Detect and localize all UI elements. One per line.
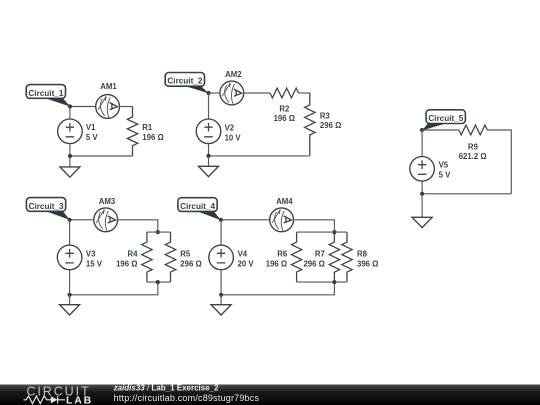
label V5 5 V	[439, 161, 452, 180]
voltage source V3	[57, 220, 82, 295]
svg-text:R9: R9	[468, 142, 479, 151]
svg-text:R7: R7	[315, 250, 325, 259]
junction circuit 2 top	[206, 91, 210, 95]
junction circuit 4 top	[219, 218, 223, 222]
voltage source V4	[209, 220, 234, 295]
resistor R3	[305, 93, 315, 156]
resistor R7	[329, 232, 339, 282]
wire node to R9	[422, 129, 459, 131]
label R5 296 Ω	[180, 250, 201, 269]
svg-text:15 V: 15 V	[86, 259, 103, 268]
svg-text:R3: R3	[320, 112, 331, 121]
svg-text:R8: R8	[357, 250, 368, 259]
svg-text:AM1: AM1	[100, 82, 117, 91]
resistor R5	[165, 232, 175, 282]
svg-text:196 Ω: 196 Ω	[274, 114, 295, 123]
wire bottom rail circuit 4	[297, 281, 347, 283]
svg-text:V2: V2	[225, 123, 235, 132]
logo resistor zigzag	[24, 396, 52, 404]
label R1 196 Ω	[142, 123, 163, 142]
svg-text:AM4: AM4	[276, 197, 293, 206]
svg-text:Circuit_1: Circuit_1	[28, 89, 63, 98]
svg-text:5 V: 5 V	[439, 171, 452, 180]
svg-text:zaidis33 / Lab_1 Exercise_2: zaidis33 / Lab_1 Exercise_2	[113, 384, 220, 393]
svg-text:20 V: 20 V	[238, 259, 255, 268]
resistor R2	[270, 88, 299, 98]
junction circuit 3 parallel bottom	[156, 280, 160, 284]
resistor R6	[291, 232, 301, 282]
junction circuit 4 bottom	[219, 293, 223, 297]
label R4 196 Ω	[116, 250, 138, 269]
svg-text:Circuit_2: Circuit_2	[167, 77, 202, 86]
node label Circuit_2	[165, 73, 208, 94]
wire bottom circuit 5	[422, 193, 511, 195]
wire parallel bottom to ground rail	[70, 282, 158, 295]
wire ammeter to R1	[120, 106, 133, 108]
junction circuit 4 parallel top	[332, 230, 336, 234]
ground circuit 3	[60, 295, 80, 315]
svg-text:AM3: AM3	[99, 197, 116, 206]
ammeter AM4	[270, 208, 294, 232]
ground circuit 4	[211, 295, 231, 315]
label R2 196 Ω	[274, 105, 295, 124]
svg-text:R6: R6	[277, 250, 288, 259]
svg-text:296 Ω: 296 Ω	[320, 121, 341, 130]
junction circuit 1 bottom	[68, 154, 72, 158]
svg-text:V4: V4	[238, 249, 248, 258]
junction circuit 2 bottom	[206, 154, 210, 158]
junction circuit 3 bottom	[68, 293, 72, 297]
wire top rail circuit 4	[297, 231, 347, 233]
svg-text:http://circuitlab.com/c89stugr: http://circuitlab.com/c89stugr79bcs	[114, 393, 260, 403]
svg-text:196 Ω: 196 Ω	[142, 133, 163, 142]
resistor R4	[142, 232, 152, 282]
wire bottom circuit 2	[209, 155, 310, 157]
svg-text:LAB: LAB	[66, 394, 93, 405]
resistor R9	[459, 125, 488, 135]
svg-text:Circuit_5: Circuit_5	[428, 114, 463, 123]
voltage source V1	[58, 107, 83, 157]
label R3 296 Ω	[320, 112, 341, 131]
voltage source V5	[410, 130, 435, 194]
label R6 196 Ω	[266, 250, 288, 269]
wire parallel bottom to ground rail circuit 4	[221, 282, 334, 295]
resistor R1	[127, 107, 137, 157]
junction circuit 3 top	[68, 218, 72, 222]
voltage source V2	[196, 93, 221, 156]
wire AM4 to parallel feed	[294, 220, 335, 232]
wire node to AM3	[70, 219, 94, 221]
wire R2 to corner	[299, 92, 310, 94]
label V4 20 V	[238, 249, 255, 268]
svg-text:R5: R5	[180, 250, 191, 259]
junction circuit 4 parallel bottom	[332, 280, 336, 284]
junction circuit 5 bottom	[420, 192, 424, 196]
node label Circuit_5	[422, 110, 465, 131]
resistor R8	[342, 232, 352, 282]
svg-text:196 Ω: 196 Ω	[116, 259, 137, 268]
svg-text:10 V: 10 V	[225, 133, 242, 142]
wire bottom circuit 1	[70, 155, 133, 157]
svg-text:AM2: AM2	[225, 70, 242, 79]
ground circuit 5	[412, 194, 432, 228]
svg-text:296 Ω: 296 Ω	[303, 259, 324, 268]
svg-text:196 Ω: 196 Ω	[266, 259, 287, 268]
node label Circuit_3	[26, 198, 69, 220]
svg-text:V3: V3	[86, 249, 96, 258]
wire node to AM2	[209, 92, 221, 94]
label R8 396 Ω	[357, 250, 378, 269]
wire bottom rail circuit 3	[147, 281, 171, 283]
ammeter AM2	[220, 81, 244, 105]
svg-text:5 V: 5 V	[86, 133, 99, 142]
svg-text:396 Ω: 396 Ω	[357, 259, 378, 268]
label R9 621.2 Ω	[459, 142, 487, 161]
junction circuit 3 parallel top	[156, 230, 160, 234]
svg-text:R2: R2	[279, 105, 290, 114]
ammeter AM1	[96, 95, 120, 119]
ground circuit 2	[199, 156, 219, 177]
svg-text:R4: R4	[128, 250, 139, 259]
wire R9 to corner and right side down	[487, 130, 511, 194]
node label Circuit_4	[178, 198, 221, 221]
svg-text:V5: V5	[439, 161, 449, 170]
label V3 15 V	[86, 249, 103, 268]
wire AM2 to R2	[244, 92, 270, 94]
wire node to AM4	[221, 219, 270, 221]
ground circuit 1	[60, 156, 80, 177]
wire AM3 to parallel feed	[118, 220, 158, 232]
junction circuit 5 top	[420, 128, 424, 132]
svg-text:296 Ω: 296 Ω	[180, 259, 201, 268]
label V2 10 V	[225, 123, 242, 142]
label V1 5 V	[86, 123, 99, 142]
svg-text:Circuit_4: Circuit_4	[180, 202, 215, 211]
ammeter AM3	[94, 208, 118, 232]
svg-text:V1: V1	[86, 123, 96, 132]
svg-text:621.2 Ω: 621.2 Ω	[459, 152, 487, 161]
svg-text:Circuit_3: Circuit_3	[29, 202, 64, 211]
node label Circuit_1	[26, 85, 70, 107]
junction node circuit 1 top	[68, 104, 72, 108]
wire top rail circuit 3	[147, 231, 171, 233]
logo diode arrow	[51, 396, 58, 403]
svg-text:R1: R1	[142, 123, 153, 132]
wire node to ammeter	[70, 106, 96, 108]
label R7 296 Ω	[303, 250, 324, 269]
